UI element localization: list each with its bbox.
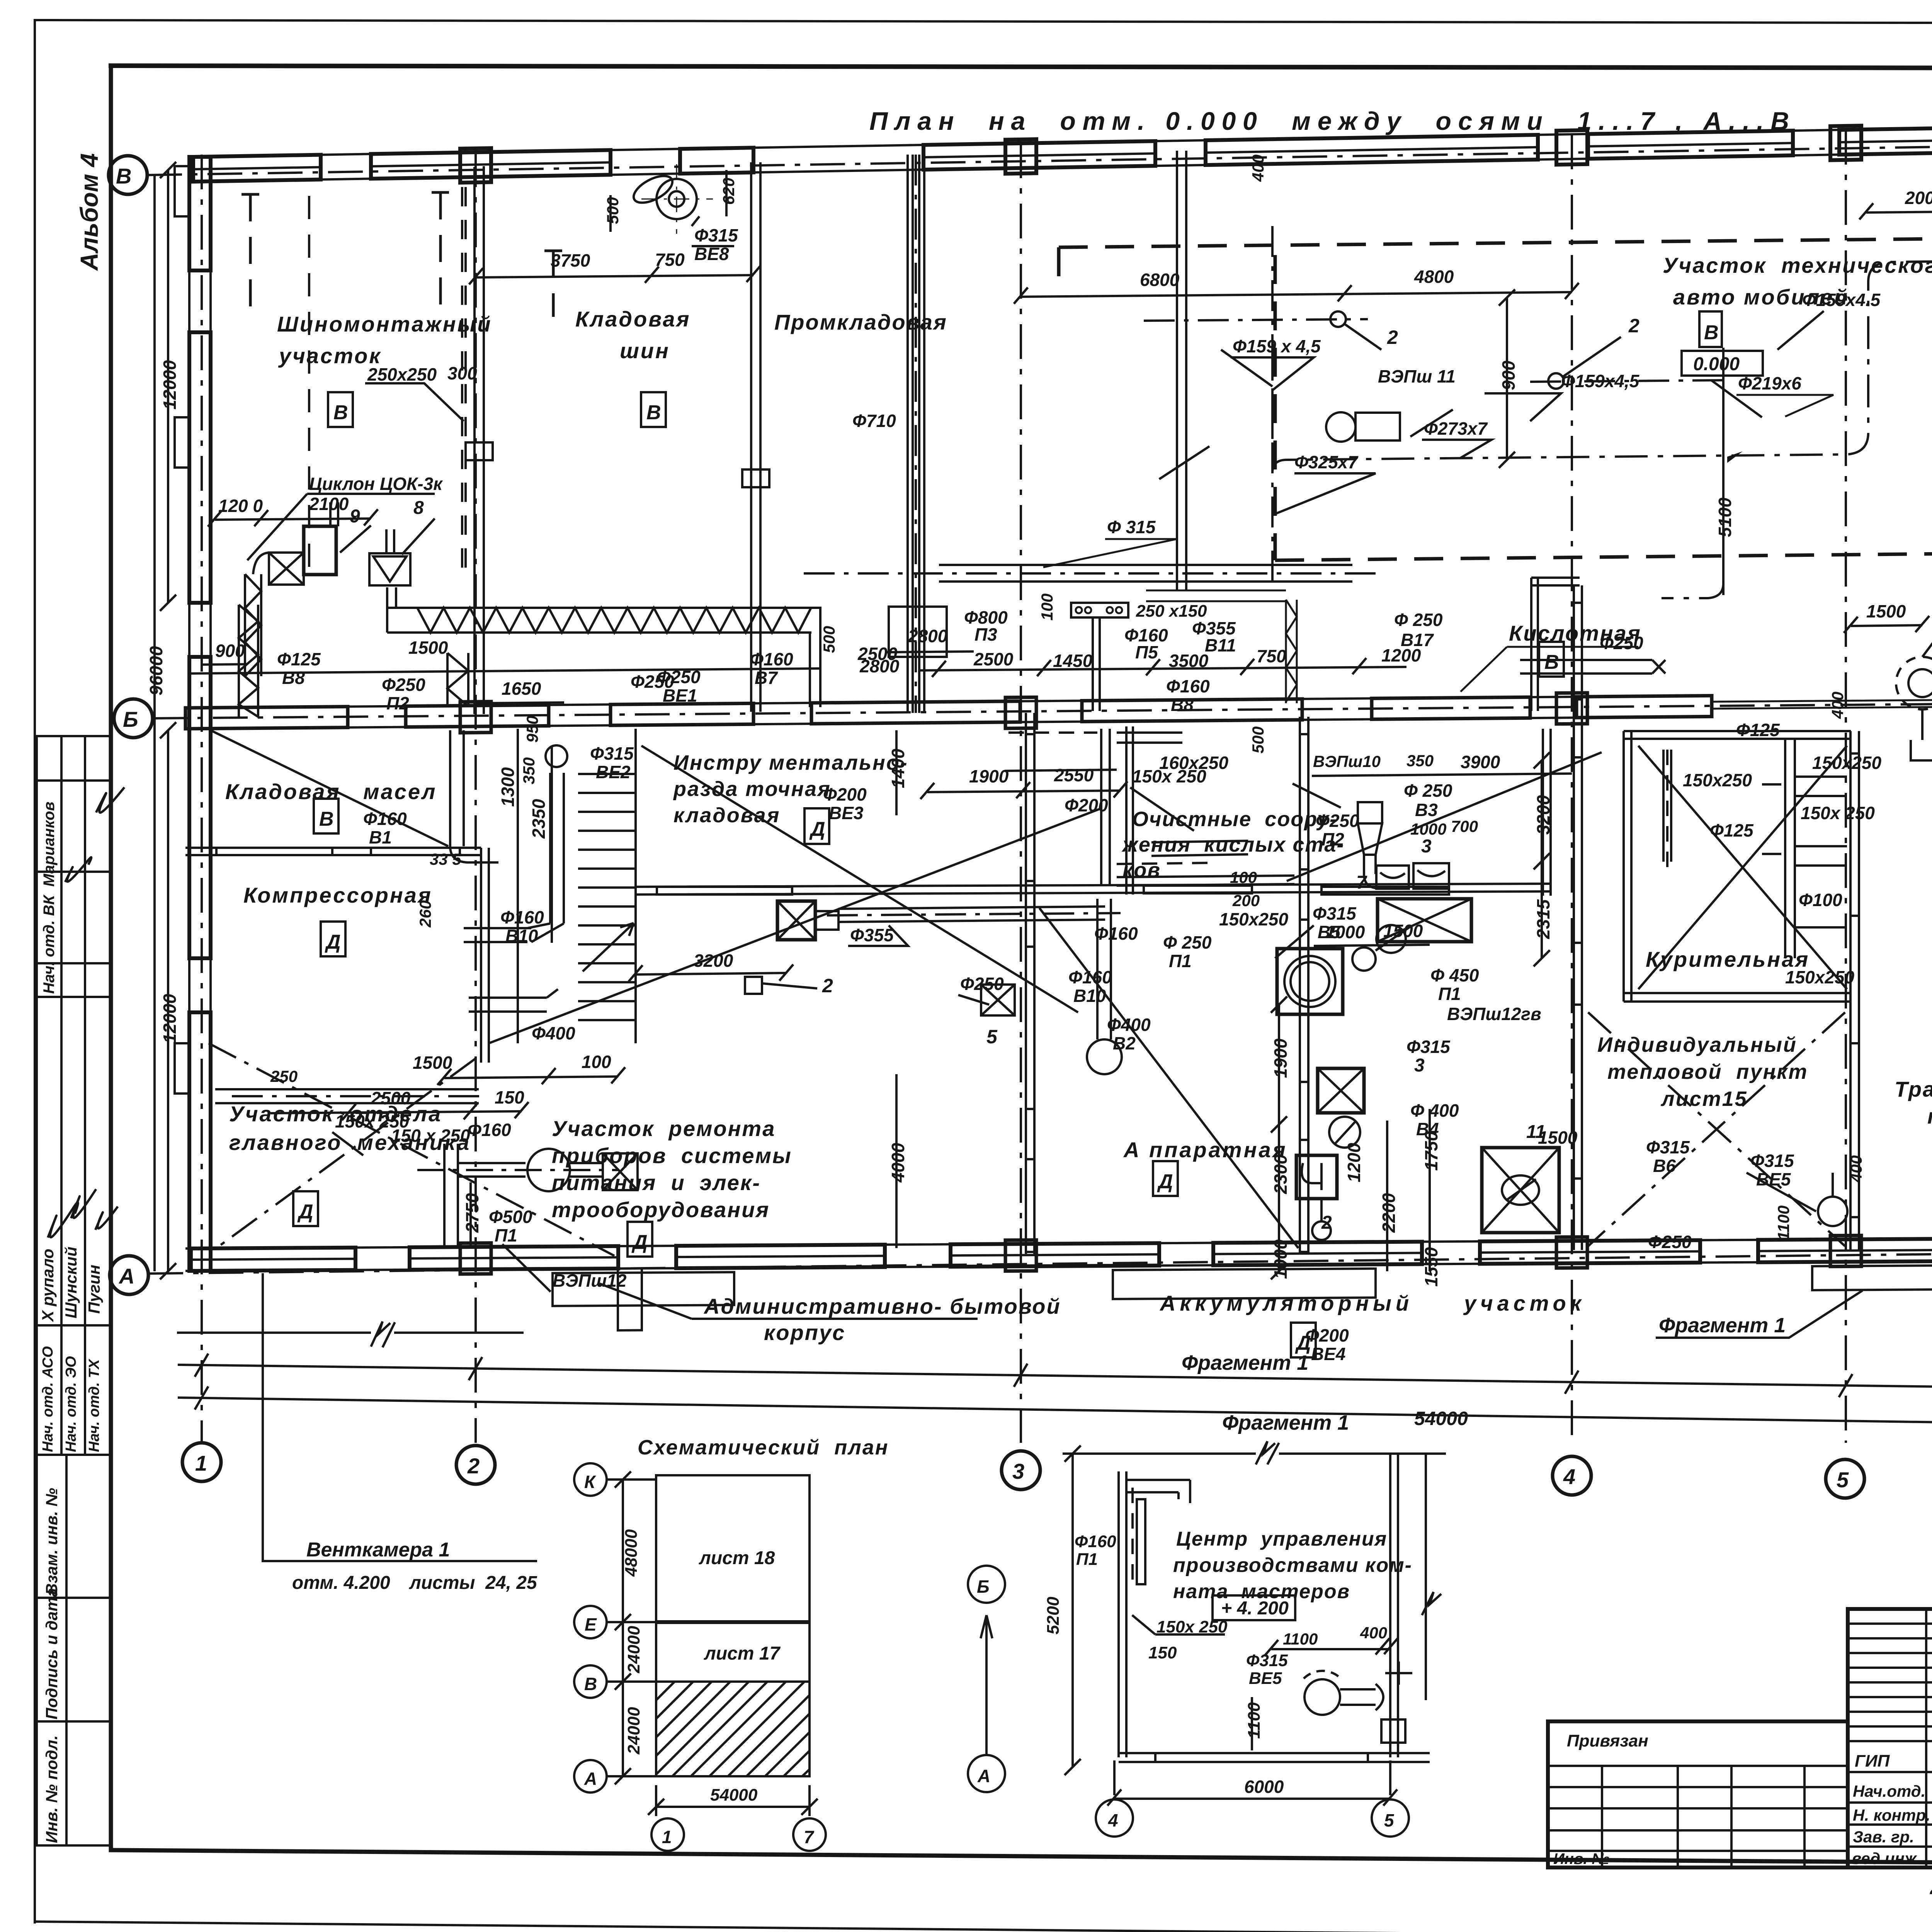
porch pier below A wall <box>618 1269 642 1330</box>
svg-text:Кислотная: Кислотная <box>1509 621 1641 645</box>
svg-text:9: 9 <box>350 506 360 527</box>
long leader diagonals center <box>489 808 1101 1043</box>
svg-text:П5: П5 <box>1135 642 1158 662</box>
svg-text:400: 400 <box>1360 1624 1387 1642</box>
svg-text:авто мобилей: авто мобилей <box>1673 285 1849 309</box>
svg-text:24000: 24000 <box>624 1707 643 1755</box>
svg-text:Нач.отд.: Нач.отд. <box>1853 1782 1925 1800</box>
svg-text:3200: 3200 <box>1533 795 1553 835</box>
vertical dim 2350 oils <box>551 746 553 943</box>
svg-text:Д: Д <box>1157 1170 1173 1193</box>
svg-text:1: 1 <box>662 1827 672 1847</box>
exterior wall axis V (top, sheared) <box>193 112 1932 187</box>
partition right of tire storage <box>751 162 760 712</box>
ABK break line bottom left <box>177 1284 978 1347</box>
V3 long diagonal leader <box>1287 752 1602 881</box>
fragment right dim line <box>1425 1454 1427 1700</box>
ventkamera note <box>263 1273 537 1561</box>
svg-text:В10: В10 <box>1073 986 1106 1006</box>
svg-text:1900: 1900 <box>1270 1038 1291 1078</box>
svg-text:3: 3 <box>1421 836 1432 857</box>
svg-text:Привязан: Привязан <box>1567 1731 1648 1750</box>
svg-text:Ф315: Ф315 <box>1750 1151 1794 1171</box>
small attach table <box>1548 1721 1848 1867</box>
unit 8 funnel <box>369 553 410 585</box>
svg-text:Кладовая: Кладовая <box>575 307 690 331</box>
svg-text:Ф125: Ф125 <box>1710 820 1754 840</box>
svg-text:1100: 1100 <box>1283 1630 1318 1648</box>
svg-text:1300: 1300 <box>498 767 518 807</box>
svg-text:7: 7 <box>1356 872 1367 893</box>
svg-text:питания и элек-: питания и элек- <box>552 1170 761 1195</box>
svg-text:6800: 6800 <box>1140 270 1180 290</box>
rotated dim 100 <box>1146 590 1286 601</box>
VE2 duct elbow in stair bay <box>546 745 567 767</box>
svg-text:5: 5 <box>1384 1810 1395 1830</box>
svg-text:7: 7 <box>804 1827 815 1847</box>
svg-text:Б: Б <box>977 1577 990 1597</box>
svg-text:Ф 250: Ф 250 <box>1163 932 1212 952</box>
dim line 1500/100 mechanic <box>444 1077 618 1078</box>
unit 2 bottom <box>1296 1155 1337 1199</box>
svg-text:листы 24, 25: листы 24, 25 <box>409 1573 537 1593</box>
svg-text:П1: П1 <box>1438 984 1461 1004</box>
dim line 2500/150 compressor <box>270 1111 522 1113</box>
svg-text:лист 17: лист 17 <box>704 1643 781 1664</box>
svg-text:отм. 4.200: отм. 4.200 <box>292 1573 390 1593</box>
left stamp block Инв № подл <box>37 1721 111 1845</box>
dim line 1900/2550 <box>927 791 1121 792</box>
dim line 1500 VE6 <box>1851 625 1922 626</box>
svg-text:Ф160: Ф160 <box>1068 967 1112 987</box>
svg-text:+ 4. 200: + 4. 200 <box>1221 1598 1289 1619</box>
smoking room X cross <box>1638 746 1847 989</box>
svg-text:1500: 1500 <box>408 638 448 658</box>
svg-text:Трансформаторная: Трансформаторная <box>1895 1077 1932 1101</box>
exterior wall axis A (bottom, sheared) <box>185 1231 1932 1333</box>
svg-text:Ф315: Ф315 <box>1246 1651 1288 1670</box>
svg-text:Зав. гр.: Зав. гр. <box>1853 1828 1914 1846</box>
axis 5 line <box>1845 130 1847 1443</box>
svg-text:В2: В2 <box>1113 1033 1136 1053</box>
dashed duct 250x250 drop <box>462 187 466 574</box>
svg-text:Ф710: Ф710 <box>852 411 896 431</box>
axis circle B <box>114 699 153 738</box>
svg-text:2: 2 <box>1628 315 1639 337</box>
svg-text:В3: В3 <box>1415 800 1438 820</box>
fan VE8 scroll <box>656 179 697 219</box>
fan 3 box <box>1318 1068 1364 1113</box>
pipeline f159 risers <box>1271 348 1274 460</box>
svg-text:8: 8 <box>413 498 424 518</box>
bottom dimension line upper <box>178 1365 1932 1396</box>
svg-text:ВЕ5: ВЕ5 <box>1756 1169 1791 1189</box>
svg-text:П1: П1 <box>1169 951 1192 971</box>
wall under treatment room <box>636 884 1551 895</box>
treatment room duct 150x250 <box>1151 841 1248 856</box>
vertical zigzag duct 2 <box>447 653 468 707</box>
exhaust shaft F710 <box>908 155 924 713</box>
svg-text:ВЭПш 11: ВЭПш 11 <box>1378 366 1456 386</box>
svg-text:ВЕ3: ВЕ3 <box>829 803 864 823</box>
svg-text:жения кислых ста-: жения кислых ста- <box>1121 833 1344 856</box>
svg-text:В6: В6 <box>1653 1156 1676 1176</box>
svg-text:1100: 1100 <box>1245 1702 1264 1739</box>
svg-text:Ф315: Ф315 <box>1406 1037 1451 1057</box>
svg-text:900: 900 <box>1498 361 1519 390</box>
zone T-marks below top wall <box>241 193 259 196</box>
svg-text:Индивидуальный: Индивидуальный <box>1597 1033 1797 1056</box>
svg-text:В: В <box>333 401 348 424</box>
svg-text:Ф160: Ф160 <box>750 649 793 669</box>
svg-text:1200: 1200 <box>1344 1143 1364 1182</box>
main mechanic duct P1 <box>444 1144 458 1248</box>
svg-text:Ф250: Ф250 <box>657 667 701 687</box>
axis B line <box>153 698 1932 718</box>
left stamp table block 1 <box>37 736 111 997</box>
svg-text:Ф355: Ф355 <box>850 925 894 945</box>
svg-text:150х 250: 150х 250 <box>1132 766 1206 786</box>
svg-text:Шунский: Шунский <box>62 1247 80 1318</box>
svg-text:В: В <box>584 1674 597 1694</box>
leader lines for labels <box>692 216 734 246</box>
svg-text:950: 950 <box>523 716 541 743</box>
svg-text:3750: 3750 <box>551 250 590 270</box>
fragment left wall <box>1119 1471 1126 1757</box>
svg-text:Участок отдела: Участок отдела <box>229 1102 442 1126</box>
svg-text:Д: Д <box>809 818 825 840</box>
dim line 900 left <box>201 664 247 665</box>
fan 7 big box <box>1378 899 1471 942</box>
svg-text:Куритeльная: Куритeльная <box>1646 947 1810 971</box>
svg-text:вед.инж.: вед.инж. <box>1852 1849 1921 1867</box>
heat point dash-dot X <box>1588 1012 1845 1246</box>
svg-text:Ф125: Ф125 <box>1736 720 1780 740</box>
svg-text:350: 350 <box>1406 752 1434 770</box>
svg-text:Ф400: Ф400 <box>1107 1015 1151 1035</box>
svg-text:ВЭПш10: ВЭПш10 <box>1313 752 1381 770</box>
dim 500 near VE8 <box>609 195 612 232</box>
svg-text:3900: 3900 <box>1461 752 1500 772</box>
svg-text:В4: В4 <box>1416 1119 1439 1139</box>
svg-text:шин: шин <box>620 338 670 363</box>
smoking room duct <box>1663 750 1671 862</box>
svg-text:П1: П1 <box>1076 1550 1098 1569</box>
svg-text:В10: В10 <box>505 926 538 946</box>
svg-text:П1: П1 <box>495 1225 517 1245</box>
svg-text:24000: 24000 <box>624 1626 643 1673</box>
vertical dims battery room <box>1278 1005 1280 1271</box>
svg-text:150: 150 <box>495 1087 524 1107</box>
svg-text:Нач. отд. ЭО: Нач. отд. ЭО <box>63 1356 79 1452</box>
dashed TO zone boundary upper <box>1059 232 1932 247</box>
svg-text:4: 4 <box>1108 1810 1118 1830</box>
hall south boundary thin line <box>1712 699 1932 709</box>
bottom axis circles 1-7 <box>182 1443 221 1481</box>
unit box 250x150 <box>1071 603 1128 617</box>
svg-text:приборов системы: приборов системы <box>552 1143 792 1168</box>
dash-dot branch with ref 2 right <box>1548 373 1564 389</box>
svg-text:5: 5 <box>1837 1468 1849 1492</box>
svg-text:В: В <box>319 808 334 830</box>
svg-text:2550: 2550 <box>1054 765 1094 785</box>
svg-text:лист15: лист15 <box>1660 1087 1748 1111</box>
svg-text:К: К <box>584 1472 596 1492</box>
svg-text:3500: 3500 <box>1169 651 1209 671</box>
svg-text:750: 750 <box>655 250 685 270</box>
svg-text:Фрагмент 1: Фрагмент 1 <box>1182 1351 1308 1374</box>
svg-text:54000: 54000 <box>1414 1408 1468 1429</box>
svg-text:П2: П2 <box>386 693 409 713</box>
vertical dim 12000 left bottom <box>167 730 169 1271</box>
svg-text:2800: 2800 <box>859 656 900 676</box>
svg-text:200: 200 <box>1232 891 1260 910</box>
svg-text:700: 700 <box>1451 817 1478 835</box>
VE5 fan circle <box>1818 1197 1847 1226</box>
fan 5 box <box>981 985 1015 1015</box>
П5 drop duct <box>1093 617 1100 711</box>
svg-text:Венткамера 1: Венткамера 1 <box>306 1539 450 1561</box>
svg-text:Ф315: Ф315 <box>590 743 634 764</box>
svg-text:3200: 3200 <box>694 951 733 971</box>
partition apparatnaya right <box>1300 717 1308 1252</box>
svg-text:Ф160: Ф160 <box>500 907 544 927</box>
svg-text:100: 100 <box>1038 594 1056 621</box>
svg-text:1900: 1900 <box>969 766 1009 786</box>
svg-text:Взам. инв. №: Взам. инв. № <box>43 1488 61 1595</box>
svg-text:Компрессорная: Компрессорная <box>243 883 432 907</box>
svg-text:В8: В8 <box>282 668 305 688</box>
fragment 150x250 leader <box>1132 1615 1225 1634</box>
B11 zigzag flex <box>1286 600 1297 703</box>
svg-text:750: 750 <box>1257 646 1286 666</box>
fragment top rail <box>1063 1452 1446 1455</box>
fragment bottom axis dim <box>1114 1798 1390 1800</box>
svg-text:900: 900 <box>215 641 245 661</box>
svg-text:ВЕ1: ВЕ1 <box>663 685 697 706</box>
svg-text:12000: 12000 <box>160 994 180 1043</box>
svg-text:1: 1 <box>195 1451 207 1475</box>
vertical dim 2750 <box>469 1182 472 1248</box>
svg-text:В11: В11 <box>1205 635 1236 655</box>
duct along axis B left <box>191 668 819 673</box>
left stamp block Подпись и дата <box>37 1598 111 1721</box>
svg-text:400: 400 <box>1828 692 1847 719</box>
svg-text:96000: 96000 <box>146 646 166 696</box>
svg-text:производствами ком-: производствами ком- <box>1173 1554 1412 1577</box>
svg-text:100: 100 <box>1230 868 1257 886</box>
svg-text:трооборудования: трооборудования <box>552 1197 770 1222</box>
svg-text:250 х150: 250 х150 <box>1136 602 1207 621</box>
partition axis 3 below B <box>1026 713 1034 1254</box>
svg-text:подстанция - 1: подстанция - 1 <box>1927 1104 1932 1128</box>
svg-text:Д: Д <box>325 931 341 953</box>
svg-text:кладовая: кладовая <box>673 804 780 827</box>
svg-text:ВЕ2: ВЕ2 <box>596 762 631 782</box>
dim line 3750/750 <box>476 275 753 277</box>
svg-text:Схематический план: Схематический план <box>638 1436 889 1459</box>
axis circle V <box>109 156 147 194</box>
svg-text:Х рупало: Х рупало <box>39 1249 57 1322</box>
axis V line <box>147 135 1932 175</box>
smoking room walls <box>1624 731 1631 1002</box>
svg-text:Д: Д <box>297 1201 313 1223</box>
axis 3 line <box>1020 143 1022 1443</box>
svg-text:разда точная: разда точная <box>673 777 831 801</box>
svg-text:3: 3 <box>1012 1459 1024 1483</box>
key plan bottom dim <box>656 1806 810 1808</box>
svg-text:Подпись и дата: Подпись и дата <box>43 1588 61 1719</box>
svg-text:500: 500 <box>604 197 622 224</box>
pipeline f273 dash-dot horizontal <box>1272 261 1932 473</box>
svg-text:Ф200: Ф200 <box>1065 795 1108 815</box>
svg-text:В8: В8 <box>1171 695 1194 715</box>
svg-text:1500: 1500 <box>1866 601 1906 621</box>
duct B corridor above axis B <box>939 565 1352 582</box>
svg-text:П3: П3 <box>975 624 997 645</box>
svg-text:2000: 2000 <box>1905 188 1932 208</box>
acid room duct F250 <box>1520 660 1652 673</box>
svg-text:Ф315: Ф315 <box>1646 1137 1690 1157</box>
dashed duct drop in tire shop <box>308 196 310 574</box>
fragment bottom wall <box>1119 1753 1430 1762</box>
sheet trim border bottom <box>35 1922 1932 1932</box>
svg-text:Пугин: Пугин <box>85 1265 103 1314</box>
svg-text:Нач. отд. ВК Марианков: Нач. отд. ВК Марианков <box>41 802 58 994</box>
stair treads <box>578 774 636 1020</box>
svg-text:400: 400 <box>1249 155 1267 182</box>
VEPsh11 unit <box>1326 412 1355 442</box>
svg-text:2: 2 <box>467 1454 480 1478</box>
svg-text:Ф 250: Ф 250 <box>1394 610 1443 630</box>
svg-text:Нач. отд. АСО: Нач. отд. АСО <box>40 1346 56 1452</box>
vertical dim 96000 <box>153 176 156 1271</box>
svg-text:В: В <box>1544 651 1559 673</box>
left stamp table block 2 signatures <box>37 997 111 1325</box>
treatment room left wall <box>1126 726 1133 895</box>
svg-text:Участок ремонта: Участок ремонта <box>552 1116 776 1141</box>
fan unit with X in instrument room <box>777 901 815 940</box>
svg-text:Ф315: Ф315 <box>694 225 738 245</box>
svg-text:В7: В7 <box>755 668 778 688</box>
svg-text:ГИП: ГИП <box>1855 1752 1890 1770</box>
svg-text:4000: 4000 <box>888 1143 908 1183</box>
svg-text:ВЭПш12: ВЭПш12 <box>553 1270 627 1291</box>
dim line 3900 <box>1312 774 1572 776</box>
svg-text:Центр управления: Центр управления <box>1176 1528 1387 1550</box>
svg-text:150х250: 150х250 <box>1219 909 1288 929</box>
svg-text:400: 400 <box>1847 1155 1865 1183</box>
svg-text:А: А <box>584 1769 597 1789</box>
svg-text:Нач. отд. ТХ: Нач. отд. ТХ <box>86 1358 102 1452</box>
svg-text:главного механика: главного механика <box>229 1130 471 1155</box>
cyclone down duct with zigzag <box>245 574 261 676</box>
sheet trim border left <box>34 20 36 1922</box>
svg-text:1500: 1500 <box>413 1053 452 1073</box>
svg-text:Фрагмент 1: Фрагмент 1 <box>1222 1411 1349 1434</box>
svg-text:11: 11 <box>1526 1122 1546 1142</box>
svg-text:150: 150 <box>1148 1643 1177 1662</box>
svg-text:5: 5 <box>986 1026 998 1048</box>
wall under oils storage <box>185 848 481 855</box>
svg-text:ВЭПш12гв: ВЭПш12гв <box>1447 1004 1541 1024</box>
svg-text:120 0: 120 0 <box>218 496 263 516</box>
window frames on left wall <box>175 166 189 216</box>
vertical dim 1400 <box>895 730 898 815</box>
dim line row above B wall <box>920 667 1406 670</box>
box +4.200 <box>1213 1595 1295 1620</box>
svg-text:В5: В5 <box>1318 922 1341 942</box>
svg-text:1100: 1100 <box>1774 1206 1793 1240</box>
svg-text:Ф 315: Ф 315 <box>1107 517 1156 537</box>
svg-text:2200: 2200 <box>1379 1193 1399 1233</box>
fragment 1 callout leader <box>1656 1291 1862 1338</box>
partition right of VEPsh10 room <box>1543 729 1551 896</box>
vertical duct V11 <box>1177 151 1186 591</box>
svg-text:5100: 5100 <box>1715 497 1735 537</box>
dim line 3200 stairs <box>636 973 786 975</box>
svg-text:Ф100: Ф100 <box>1799 890 1842 910</box>
partition between tire shop and tire storage <box>474 166 484 714</box>
V2 duct drop <box>1097 899 1111 1039</box>
svg-text:150х 250: 150х 250 <box>1801 803 1875 823</box>
svg-text:1000: 1000 <box>1270 1239 1291 1279</box>
dim line 6800/4800 <box>1021 292 1572 297</box>
svg-text:В: В <box>646 401 661 424</box>
signature table <box>1848 1609 1932 1867</box>
svg-text:2500: 2500 <box>973 649 1014 669</box>
left stamp block Взам инв <box>37 1455 111 1598</box>
key plan axis circles <box>574 1463 607 1496</box>
svg-text:Ф 450: Ф 450 <box>1430 965 1479 985</box>
axis A line <box>148 1246 1932 1274</box>
svg-text:4: 4 <box>1563 1464 1575 1489</box>
dim line 2800 <box>885 651 974 652</box>
svg-text:1450: 1450 <box>1053 651 1093 671</box>
fragment axis B/A circles with arrow <box>968 1566 1005 1603</box>
svg-text:Ф 400: Ф 400 <box>1410 1100 1459 1121</box>
svg-text:корпус: корпус <box>764 1320 845 1345</box>
exterior wall left (axis 1) <box>189 157 211 1271</box>
svg-text:В: В <box>1704 321 1719 344</box>
oils storage duct drop <box>450 730 464 846</box>
svg-text:Циклон ЦОК-3к: Циклон ЦОК-3к <box>309 474 443 494</box>
cyclone TsOK-3k unit 9 <box>304 526 336 575</box>
svg-text:2: 2 <box>822 975 833 997</box>
dashed TO zone boundary lower <box>1275 547 1932 560</box>
sheet trim border top <box>35 20 1932 24</box>
svg-text:Ф250: Ф250 <box>382 675 425 695</box>
svg-text:Промкладовая: Промкладовая <box>774 310 947 334</box>
svg-text:Шиномонтажный: Шиномонтажный <box>277 312 492 336</box>
svg-text:Б: Б <box>123 707 138 731</box>
svg-text:Ф200: Ф200 <box>1305 1325 1349 1345</box>
svg-text:Ф160: Ф160 <box>363 809 407 829</box>
svg-text:Ф250: Ф250 <box>960 974 1004 994</box>
interior wall axis B (sheared) <box>185 692 1712 735</box>
svg-text:1650: 1650 <box>502 679 541 699</box>
svg-text:250: 250 <box>270 1067 298 1085</box>
svg-text:А: А <box>977 1766 990 1786</box>
svg-text:ВЕ5: ВЕ5 <box>1249 1669 1282 1688</box>
dim 620 fan VE8 <box>725 170 728 216</box>
leader F159x4.5 left <box>1221 350 1272 386</box>
svg-text:500: 500 <box>820 626 838 653</box>
svg-text:2350: 2350 <box>529 799 549 839</box>
svg-text:1500: 1500 <box>1383 921 1423 941</box>
wall right of compressor room <box>481 848 489 1063</box>
dim line 1650 <box>476 702 564 703</box>
